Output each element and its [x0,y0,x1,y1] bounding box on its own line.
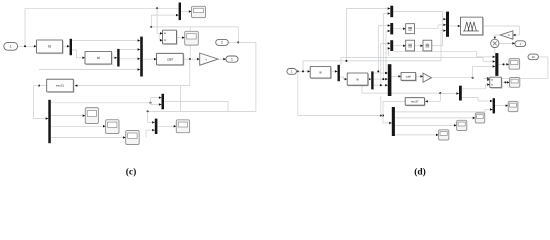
svg-text:eec31: eec31 [56,84,65,88]
svg-text:(c): (c) [126,167,137,178]
svg-text:clef: clef [167,57,172,61]
svg-text:1: 1 [231,57,233,61]
svg-text:1: 1 [10,45,12,49]
svg-text:cdef: cdef [406,74,412,78]
svg-text:-t: -t [205,57,207,61]
svg-text:(d): (d) [414,167,426,178]
svg-text:td: td [48,45,51,49]
svg-text:td: td [97,56,100,60]
svg-text:10: 10 [532,55,536,59]
svg-text:2: 2 [221,41,223,45]
svg-text:eec37: eec37 [411,99,419,103]
